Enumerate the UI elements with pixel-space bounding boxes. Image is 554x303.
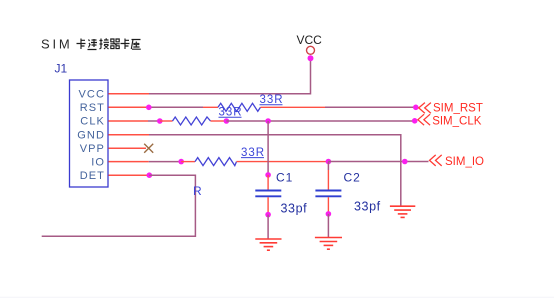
junction CLK at port (412, 118, 418, 124)
resistor (RST) 33R (203, 103, 325, 111)
junction CLK / C1 branch (265, 118, 271, 124)
junction RST at pin end (146, 105, 152, 111)
junction dot VCC (308, 55, 314, 61)
designator J1 (55, 62, 68, 76)
svg-text:SIM_CLK: SIM_CLK (432, 115, 482, 127)
junction DET at pin end (147, 172, 153, 178)
title SIM卡连接器卡座 (41, 37, 141, 52)
pin name VCC (78, 88, 105, 100)
wire VCC net to power symbol (149, 58, 311, 93)
wire IO pin to resistor (149, 161, 182, 163)
wire C2 branch from IO (327, 162, 329, 171)
pin name IO (91, 156, 105, 168)
pin name CLK (80, 116, 105, 128)
junction CLK at x160 (157, 118, 163, 124)
power port VCC circle (307, 46, 315, 54)
designator C1 (276, 171, 293, 185)
value 33pf (C2) (354, 200, 381, 214)
svg-text:33pf: 33pf (354, 200, 381, 214)
连 (88, 39, 98, 50)
pin name RST (80, 102, 105, 114)
接 (100, 38, 110, 49)
wire C1 branch from CLK (267, 121, 269, 175)
resistor (IO) 33R (181, 158, 328, 166)
ground symbol (C2) (315, 238, 342, 250)
designator C2 (344, 171, 361, 185)
svg-text:SIM: SIM (41, 37, 73, 52)
power net label VCC (297, 33, 323, 47)
value label 33R (RST) (260, 94, 284, 106)
svg-text:VCC: VCC (297, 33, 323, 47)
svg-text:VCC: VCC (78, 88, 105, 100)
capacitor C2 (315, 170, 341, 214)
screenshot bottom edge line (0, 296, 554, 298)
svg-text:SIM_RST: SIM_RST (433, 102, 483, 114)
junction IO near port (402, 159, 408, 165)
port SIM_IO (430, 155, 485, 168)
pin name VPP (80, 143, 105, 155)
value label 33R (IO) (241, 147, 265, 159)
junction C1 bottom (265, 212, 271, 218)
pin VCC stub (109, 93, 150, 95)
port SIM_RST (419, 102, 483, 114)
wire RST pin to resistor (149, 106, 203, 108)
pin CLK stub (109, 120, 149, 122)
designator R (193, 184, 202, 198)
wire C1 to ground (267, 215, 269, 239)
wire CLK pin to resistor (148, 120, 160, 122)
no-connect X on VPP (144, 144, 153, 153)
connector J1 body (70, 80, 109, 187)
svg-text:DET: DET (80, 170, 105, 182)
pin name DET (80, 170, 105, 182)
junction IO before resistor (178, 159, 184, 165)
resistor (CLK) 33R (160, 117, 226, 125)
wire GND pin to ground (149, 135, 401, 206)
pin IO stub (109, 161, 149, 163)
卡 (121, 39, 130, 50)
junction RST at port (413, 105, 419, 111)
value 33pf (C1) (281, 202, 308, 216)
pin VPP stub (109, 147, 147, 149)
svg-text:R: R (193, 184, 202, 198)
svg-text:C2: C2 (344, 171, 361, 185)
wire C2 to ground (327, 214, 329, 238)
svg-text:C1: C1 (276, 171, 293, 185)
junction C1 top (265, 172, 271, 178)
pin RST stub (109, 106, 149, 108)
capacitor C1 (255, 175, 281, 215)
座 (131, 40, 141, 50)
value label 33R (CLK) (219, 107, 243, 119)
svg-text:33pf: 33pf (281, 202, 308, 216)
pin GND stub (109, 134, 150, 136)
wire IO to port (328, 161, 428, 163)
svg-text:RST: RST (80, 102, 105, 114)
卡 (77, 39, 86, 50)
svg-text:SIM_IO: SIM_IO (445, 156, 484, 168)
svg-text:IO: IO (91, 156, 105, 168)
junction CLK at resistor output (224, 118, 230, 124)
wire DET return path (42, 175, 196, 236)
pin DET stub (109, 174, 150, 176)
port SIM_CLK (418, 114, 482, 127)
ground symbol (C1) (255, 239, 281, 250)
pin name GND (77, 129, 105, 141)
wire CLK resistor to port (226, 120, 414, 122)
junction C2 bottom (326, 211, 332, 217)
svg-text:GND: GND (77, 129, 105, 141)
ground symbol (GND net) (390, 206, 415, 217)
svg-text:J1: J1 (55, 62, 68, 76)
器 (110, 39, 119, 49)
svg-text:VPP: VPP (80, 143, 105, 155)
junction IO / C2 branch (326, 159, 332, 165)
svg-text:CLK: CLK (80, 116, 105, 128)
wire RST resistor to port (325, 106, 416, 108)
